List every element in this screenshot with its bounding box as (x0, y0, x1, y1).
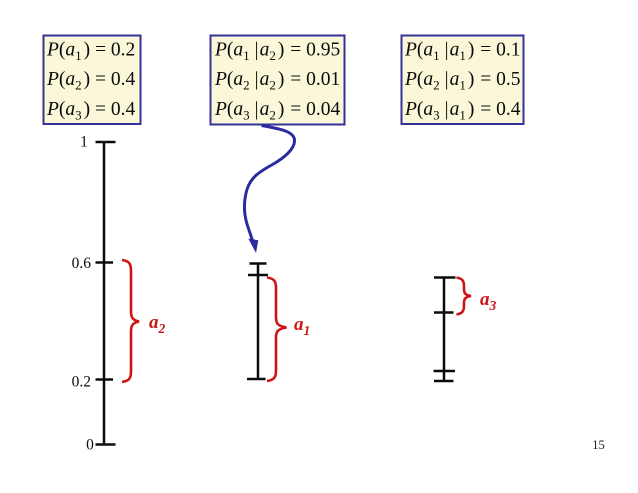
blue arrow curve from box B2 to middle line (245, 126, 295, 243)
tick r-top (434, 276, 456, 279)
svg-text:P(a2|a2) = 0.01: P(a2|a2) = 0.01 (214, 69, 340, 93)
svg-text:0.2: 0.2 (72, 374, 91, 391)
svg-text:0: 0 (86, 437, 94, 454)
svg-text:1: 1 (80, 134, 88, 151)
interval line 2 [0.2,0.6] (257, 263, 260, 381)
tick m-bottom 0.2 (247, 378, 266, 381)
arrowhead (249, 239, 258, 251)
brace a2 on left axis (122, 260, 139, 382)
box B3 P(ai|a1) conditionals (402, 36, 524, 125)
tick r-mid (434, 311, 454, 314)
brace a3 on right line (457, 278, 472, 315)
svg-text:P(a1) = 0.2: P(a1) = 0.2 (46, 40, 135, 64)
interval line 3 [0.2,0.58] (443, 278, 446, 383)
svg-text:P(a3) = 0.4: P(a3) = 0.4 (46, 99, 136, 123)
svg-text:P(a3|a2) = 0.04: P(a3|a2) = 0.04 (214, 99, 340, 123)
svg-text:P(a1|a2) = 0.95: P(a1|a2) = 0.95 (214, 40, 340, 64)
tick 0.6 (96, 261, 114, 264)
brace a1 on middle line (267, 278, 287, 382)
tick 1 (96, 141, 116, 144)
svg-text:15: 15 (592, 438, 605, 452)
tick 0 (96, 443, 116, 446)
svg-text:0.6: 0.6 (72, 255, 92, 272)
tick r-low1 (434, 370, 456, 373)
svg-text:P(a2) = 0.4: P(a2) = 0.4 (46, 69, 136, 93)
tick r-low2 (434, 380, 454, 383)
box B2 P(ai|a2) conditionals (211, 36, 345, 125)
tick 0.2 (96, 378, 114, 381)
axis main vertical line [0,1] (103, 142, 106, 445)
tick m-0.58 (248, 274, 268, 277)
box B1 P(ai) priors (44, 36, 141, 125)
tick m-top 0.6 (250, 262, 267, 265)
